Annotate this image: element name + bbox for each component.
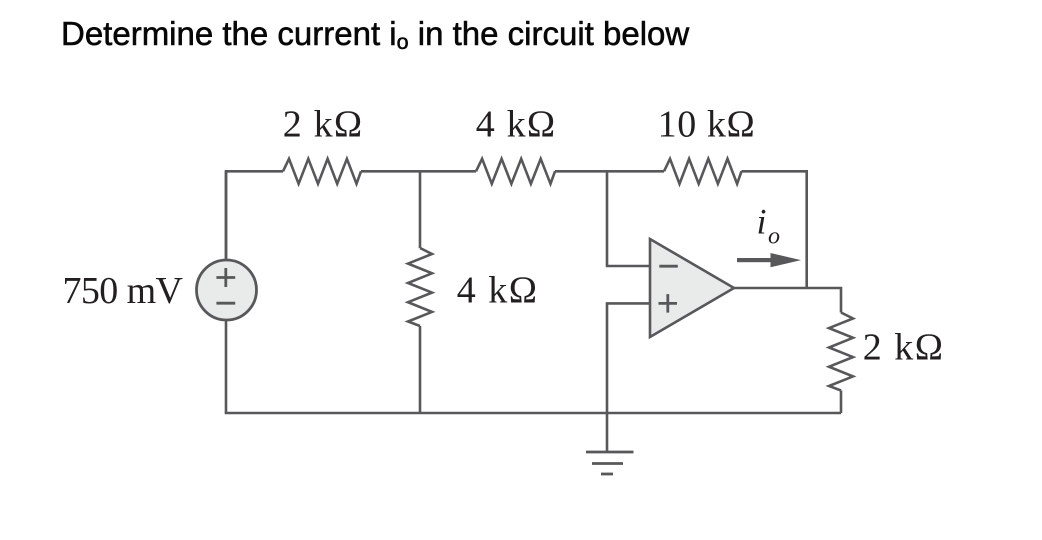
svg-text:10 kΩ: 10 kΩ [658, 104, 756, 146]
svg-text:o: o [768, 224, 780, 250]
wire source top lead [225, 171, 228, 260]
current arrow i_o [737, 253, 801, 267]
wire R4 to bottom rail [419, 326, 422, 413]
wire node A down to R4 [419, 171, 422, 248]
voltage source V1 minus sign [216, 302, 235, 305]
svg-text:750 mV: 750 mV [63, 270, 184, 312]
svg-text:Determine the current io in th: Determine the current io in the circuit … [61, 15, 689, 54]
ground symbol [586, 452, 634, 474]
op-amp U1 inverting pin minus sign [659, 265, 678, 268]
wire bottom rail [225, 412, 841, 415]
op-amp U1 noninverting pin plus sign [659, 294, 678, 313]
wire ground stem [606, 413, 609, 452]
voltage source V1 circle [197, 260, 257, 320]
svg-text:4 kΩ: 4 kΩ [457, 270, 539, 312]
svg-text:4 kΩ: 4 kΩ [476, 104, 557, 146]
svg-text:2 kΩ: 2 kΩ [863, 327, 945, 369]
wire R5 to bottom rail [840, 391, 843, 414]
wire op-amp output to R5 [734, 288, 841, 313]
resistor R4 4k ohm vertical [408, 248, 432, 326]
wire R2 to node B [555, 170, 664, 173]
wire node B down to inverting input [607, 171, 650, 266]
svg-text:2 kΩ: 2 kΩ [283, 104, 364, 146]
wire top rail left segment [226, 171, 283, 259]
wire R1 to node A [361, 170, 476, 173]
resistor R2 4k ohm horizontal [476, 159, 555, 184]
resistor R1 2k ohm horizontal [283, 159, 361, 184]
wire R3 to feedback drop [742, 171, 807, 288]
svg-text:i: i [757, 202, 767, 242]
resistor R5 2k ohm vertical [829, 313, 853, 391]
wire noninverting input from ground node [607, 303, 650, 413]
op-amp U1 triangle [650, 239, 734, 337]
voltage source V1 plus sign [216, 268, 235, 287]
wire left rail below source [225, 321, 228, 414]
resistor R3 10k ohm horizontal [664, 159, 742, 184]
